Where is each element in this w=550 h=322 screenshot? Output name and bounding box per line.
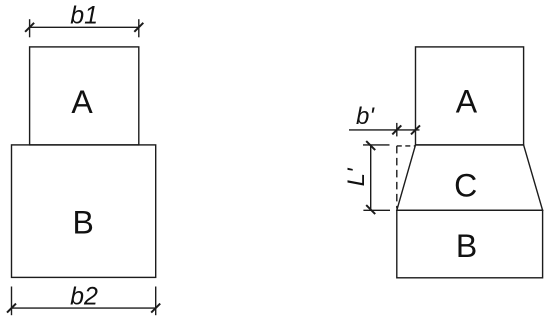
- dimension b' line: [349, 129, 420, 131]
- block B (right figure): [397, 210, 543, 277]
- dimension L' extension line top: [363, 144, 390, 146]
- svg-text:B: B: [73, 205, 94, 241]
- dimension L' tick bottom: [366, 205, 375, 214]
- svg-text:L': L': [343, 167, 370, 186]
- dimension L' tick top: [366, 141, 375, 150]
- svg-text:A: A: [71, 84, 93, 120]
- block A (left figure): [30, 47, 139, 145]
- dimension b2 extension line left: [11, 287, 13, 316]
- dimension b2 line: [12, 307, 156, 309]
- dimension b' extension line: [396, 123, 398, 136]
- dimension b2 tick left: [7, 304, 16, 313]
- block C trapezoid (right figure): [397, 145, 543, 210]
- dimension L' line: [370, 146, 372, 210]
- svg-text:b': b': [356, 103, 375, 130]
- hidden edge dashed horizontal: [397, 145, 416, 147]
- dimension b' tick right: [411, 125, 420, 134]
- dimension b1 tick right: [134, 23, 143, 32]
- dimension b1 extension line right: [138, 19, 140, 37]
- dimension b2 tick right: [151, 304, 160, 313]
- dimension L' extension line bottom: [363, 209, 390, 211]
- dimension b2 extension line right: [155, 287, 157, 316]
- hidden edge dashed vertical: [396, 146, 398, 209]
- dimension b1 line: [30, 26, 139, 28]
- block A (right figure): [416, 47, 524, 145]
- svg-text:b2: b2: [70, 282, 98, 310]
- svg-text:B: B: [456, 228, 477, 264]
- block B (left figure): [12, 145, 156, 278]
- dimension b1 extension line left: [29, 19, 31, 37]
- svg-text:C: C: [454, 168, 477, 204]
- svg-text:b1: b1: [70, 1, 98, 29]
- dimension b1 tick left: [25, 23, 34, 32]
- svg-text:A: A: [456, 83, 478, 119]
- dimension b' tick left: [392, 125, 401, 134]
